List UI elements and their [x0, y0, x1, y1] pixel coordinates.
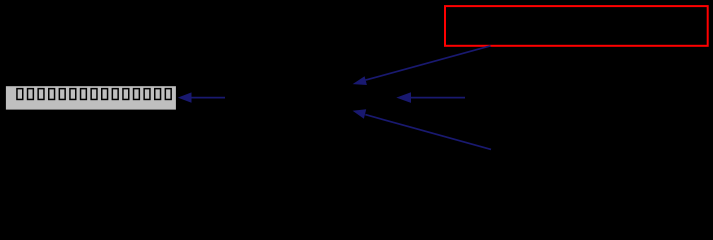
arrowhead: from bottom right: [353, 109, 367, 118]
edge: bottom right node to center node (wire): [365, 115, 491, 150]
arrowhead: from red box: [353, 76, 367, 85]
node: gray filled box (current class): [6, 86, 176, 109]
edge: center node to gray box (wire): [191, 97, 226, 99]
arrowhead: into gray box: [178, 92, 192, 102]
arrowhead: middle: [396, 92, 411, 103]
edge: middle right node to center node (wire): [410, 97, 465, 99]
node label: missing-glyph tofu boxes (15): [17, 89, 171, 100]
node: red-bordered box (truncated class): [445, 6, 708, 46]
edge: red box to center node (wire): [366, 46, 491, 80]
